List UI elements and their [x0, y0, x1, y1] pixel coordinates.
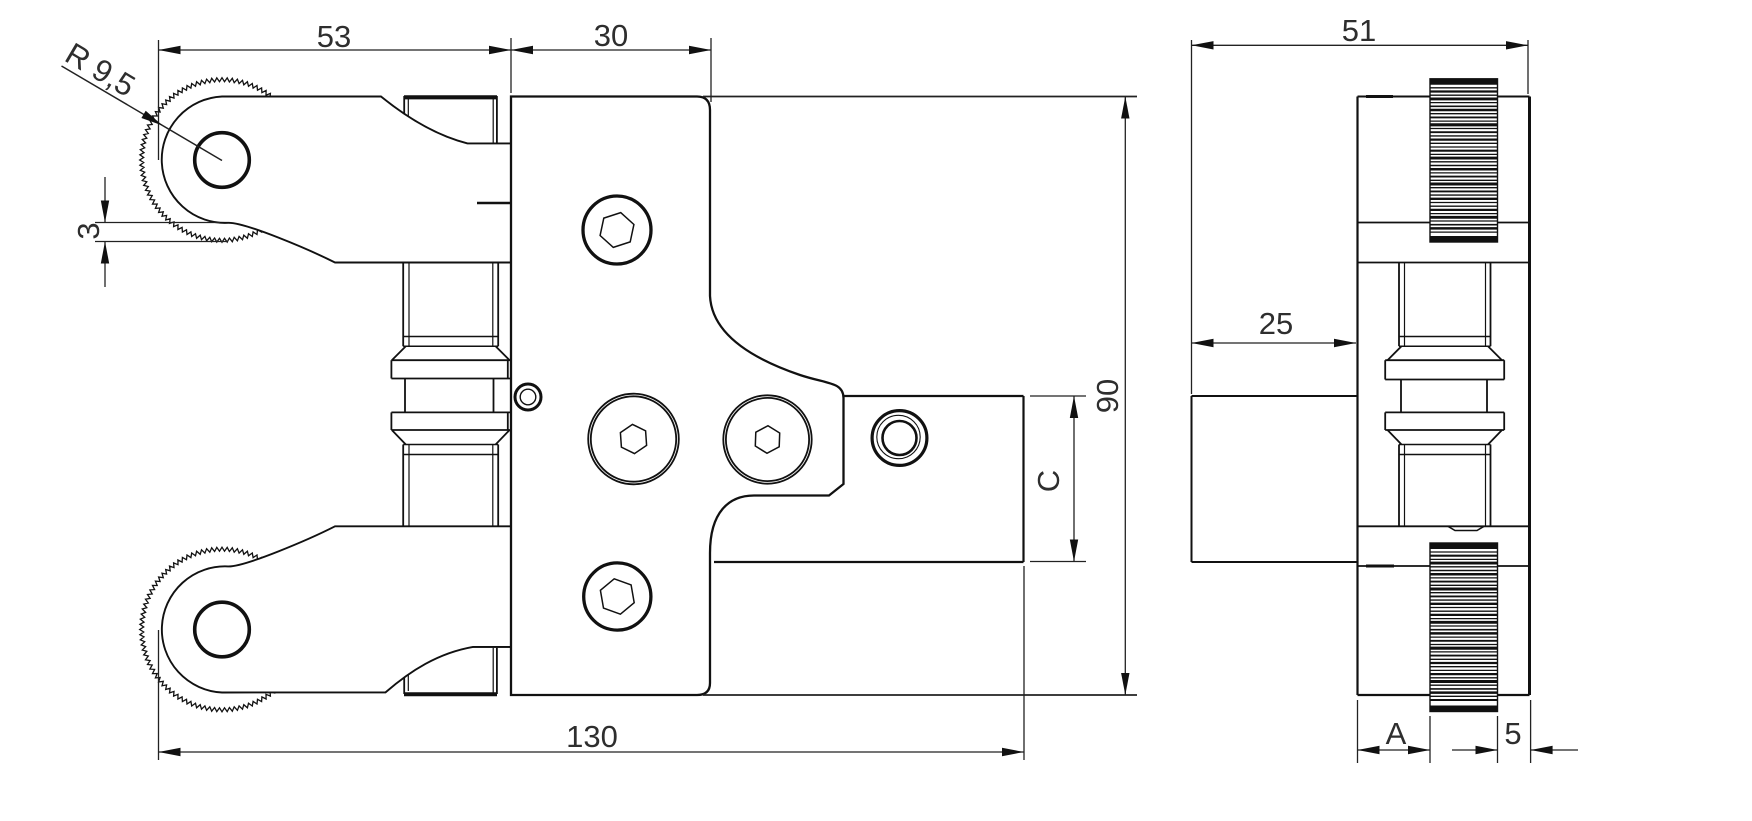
svg-text:53: 53: [317, 19, 351, 54]
svg-text:30: 30: [594, 18, 628, 53]
radius leader R 9,5: [59, 36, 222, 161]
upper arm: [162, 97, 511, 263]
lower clamp screw head: [404, 647, 511, 694]
tool body: [511, 97, 844, 696]
side tick marks: [1366, 95, 1393, 98]
adjusting screw column (front): [391, 263, 511, 527]
svg-text:25: 25: [1259, 306, 1293, 341]
pivot bore W2: [195, 602, 250, 657]
shank: [844, 395, 1024, 397]
upper clamp screw head: [404, 96, 511, 144]
dim C: [1030, 396, 1086, 562]
pivot bore W1: [195, 133, 250, 188]
svg-text:130: 130: [566, 719, 618, 754]
screw S1 (top): [583, 196, 651, 264]
knurl wheel W1 (upper, serrated): [140, 78, 305, 243]
shank mounting hole: [872, 411, 927, 466]
svg-text:51: 51: [1342, 13, 1376, 48]
side knurl wheel W1 (upper): [1430, 79, 1498, 242]
side view body: [1358, 97, 1530, 696]
dim 25: [1192, 306, 1357, 347]
dim 53: [159, 19, 512, 160]
dim 130: [159, 566, 1025, 760]
side knurl wheel W2 (lower): [1430, 543, 1498, 712]
dim 51: [1192, 13, 1529, 394]
screw S2 (mid-left): [588, 394, 679, 485]
knurl wheel W2 (lower, serrated): [140, 547, 305, 712]
slot hidden edge tick: [477, 202, 510, 205]
side shank block: [1191, 396, 1193, 562]
svg-text:3: 3: [71, 222, 106, 239]
dim 90: [703, 97, 1137, 696]
screw S3 (mid-right): [723, 395, 811, 483]
dim 3: [71, 177, 228, 287]
dim 5: [1452, 700, 1578, 763]
svg-text:90: 90: [1090, 379, 1125, 413]
svg-text:C: C: [1031, 470, 1066, 492]
screw S4 (bottom): [584, 563, 651, 630]
set screw: [515, 384, 541, 410]
dim A: [1358, 700, 1431, 763]
dim 30: [511, 18, 711, 102]
svg-text:5: 5: [1504, 716, 1521, 751]
screw end dip: [1448, 526, 1484, 530]
lower arm: [162, 526, 511, 692]
svg-text:A: A: [1386, 716, 1407, 751]
adjusting screw column (side): [1385, 263, 1504, 527]
